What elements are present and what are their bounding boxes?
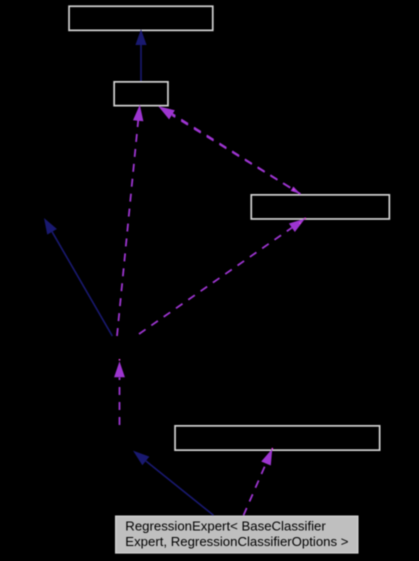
svg-text:RegressionExpert< BaseClassifi: RegressionExpert< BaseClassifier: [125, 518, 326, 533]
svg-text:Expert, RegressionClassifierOp: Expert, RegressionClassifierOptions >: [125, 534, 348, 549]
